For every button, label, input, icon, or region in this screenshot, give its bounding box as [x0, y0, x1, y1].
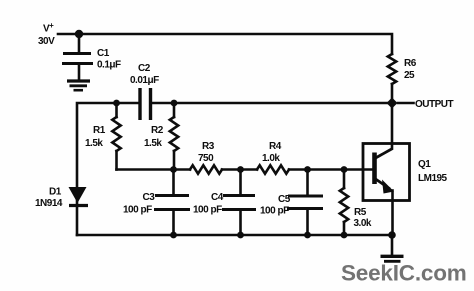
svg-text:100 pF: 100 pF	[260, 206, 289, 217]
svg-text:1.5k: 1.5k	[85, 138, 103, 149]
wire second rail left segment	[77, 103, 139, 235]
svg-text:LM195: LM195	[418, 173, 448, 184]
wire R5 leads	[343, 170, 346, 189]
node R2 top	[171, 100, 178, 107]
svg-text:V+: V+	[43, 21, 54, 35]
svg-text:1.5k: 1.5k	[144, 138, 162, 149]
node C4 bottom	[237, 232, 244, 239]
node R5 bottom	[341, 232, 348, 239]
svg-text:1N914: 1N914	[35, 198, 63, 209]
svg-text:100 pF: 100 pF	[193, 205, 222, 216]
capacitor C2	[140, 88, 151, 120]
node R5 top	[341, 166, 348, 173]
wire collector from output node	[391, 103, 394, 149]
svg-text:3.0k: 3.0k	[354, 218, 372, 229]
svg-text:30V: 30V	[38, 36, 55, 47]
wire C3 stems	[172, 170, 175, 196]
svg-text:25: 25	[404, 70, 415, 81]
transistor Q1	[363, 144, 410, 201]
wire C1 bottom stem to ground	[78, 64, 81, 81]
capacitor C4	[222, 196, 256, 210]
wire second rail right segment	[152, 102, 393, 105]
resistor R5	[340, 188, 348, 222]
svg-text:100 pF: 100 pF	[123, 205, 152, 216]
svg-text:750: 750	[198, 153, 214, 164]
svg-text:Q1: Q1	[418, 159, 431, 170]
wire R2 leads	[173, 103, 176, 117]
svg-text:C4: C4	[211, 192, 224, 203]
wire output dash	[398, 102, 414, 105]
ground below Q1 emitter	[381, 256, 404, 261]
svg-text:R4: R4	[269, 141, 282, 152]
resistor R1	[112, 117, 120, 151]
svg-text:R6: R6	[404, 58, 417, 69]
wire C5 stems	[306, 170, 309, 196]
wire emitter to bottom rail	[391, 191, 394, 236]
capacitor C1	[62, 54, 93, 64]
resistor R6	[388, 54, 396, 84]
node V+ junction	[75, 30, 83, 38]
svg-text:SeekIC.com: SeekIC.com	[341, 261, 467, 286]
svg-text:0.1μF: 0.1μF	[97, 60, 121, 71]
wire R1 leads	[115, 103, 118, 117]
svg-text:D1: D1	[49, 187, 62, 198]
svg-text:R5: R5	[354, 207, 367, 218]
svg-text:C5: C5	[278, 194, 291, 205]
resistor R2	[170, 117, 178, 151]
node R1 top	[113, 100, 120, 107]
capacitor C3	[154, 196, 190, 210]
svg-text:C2: C2	[138, 63, 151, 74]
node C3 bottom	[170, 232, 177, 239]
svg-text:R2: R2	[151, 125, 164, 136]
node C5 top	[304, 166, 311, 173]
svg-text:C1: C1	[97, 48, 110, 59]
wire C1 stem	[78, 34, 81, 53]
node C5 bottom	[304, 232, 311, 239]
emitter arrow Q1	[382, 180, 394, 194]
wire top rail V+ to R6	[58, 34, 392, 54]
capacitor C5	[287, 196, 323, 209]
svg-text:R1: R1	[93, 125, 106, 136]
wire R6 to output node	[391, 84, 394, 103]
wire third rail segment c to base	[289, 168, 373, 171]
ground below C1	[67, 81, 90, 90]
svg-text:C3: C3	[143, 192, 156, 203]
wire C4 stems	[239, 170, 242, 196]
svg-text:R3: R3	[202, 141, 215, 152]
wire third rail segment a	[117, 168, 191, 171]
wire bottom rail	[77, 234, 392, 237]
node C3 top	[170, 166, 177, 173]
svg-text:OUTPUT: OUTPUT	[415, 99, 454, 110]
node OUTPUT	[387, 98, 398, 109]
node emitter bottom	[388, 231, 396, 239]
wire emitter ground stem	[391, 235, 394, 255]
resistor R4	[257, 165, 289, 173]
resistor R3	[190, 165, 222, 173]
node C4 top	[237, 166, 244, 173]
svg-text:1.0k: 1.0k	[262, 153, 280, 164]
svg-text:0.01μF: 0.01μF	[130, 75, 159, 86]
wire third rail segment b	[222, 168, 257, 171]
diode D1	[69, 187, 89, 206]
